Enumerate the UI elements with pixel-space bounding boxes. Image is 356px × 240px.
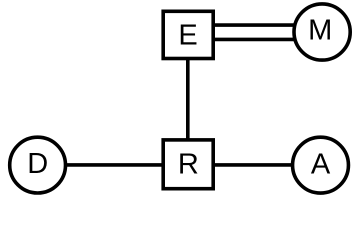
edge E-M lower line of double bond xyxy=(214,38,298,42)
svg-text:D: D xyxy=(27,148,48,180)
node R (square) xyxy=(163,140,213,189)
label M xyxy=(308,14,332,46)
label A xyxy=(311,148,331,180)
label E xyxy=(178,20,197,52)
svg-text:E: E xyxy=(178,20,197,52)
wire R-A (horizontal edge) xyxy=(211,163,294,167)
edge E-M upper line of double bond xyxy=(214,23,298,27)
node A (circle) xyxy=(293,137,349,193)
node M (circle) xyxy=(294,4,350,60)
label D xyxy=(27,148,48,180)
node D (circle) xyxy=(10,137,66,193)
node E (square) xyxy=(163,11,213,58)
wire E-R (vertical edge) xyxy=(186,57,190,141)
svg-text:R: R xyxy=(178,148,199,180)
wire D-R (horizontal edge) xyxy=(63,163,165,167)
svg-text:A: A xyxy=(311,148,331,180)
label R xyxy=(178,148,199,180)
svg-text:M: M xyxy=(308,14,332,46)
